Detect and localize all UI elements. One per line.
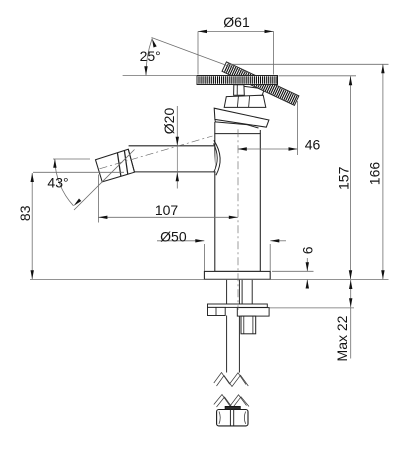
dimension diameter 61 — [198, 14, 274, 75]
svg-text:166: 166 — [367, 162, 383, 186]
dimension Max 22 — [270, 280, 355, 361]
spout tip (aerator) — [96, 149, 135, 182]
spout tip axis center line — [100, 136, 213, 169]
handwheel tilted knurled bar (25 deg) — [222, 62, 299, 105]
spout tube — [129, 146, 216, 172]
svg-text:Ø61: Ø61 — [223, 14, 250, 30]
handwheel rim horizontal knurled bar — [197, 76, 278, 85]
hex nut — [217, 410, 248, 426]
svg-text:83: 83 — [17, 205, 33, 221]
faucet body cylinder — [215, 122, 260, 272]
svg-text:107: 107 — [155, 202, 179, 218]
mounting washer plate — [208, 304, 268, 307]
dimension 107 — [98, 175, 237, 223]
dimension angle 25 — [123, 38, 247, 76]
dimension 6 — [272, 246, 316, 288]
dimension angle 43 — [47, 150, 134, 211]
svg-text:6: 6 — [300, 246, 316, 254]
dimension 166 — [30, 64, 389, 279]
dimension 157 — [279, 76, 357, 279]
svg-text:25°: 25° — [140, 48, 161, 64]
svg-text:157: 157 — [336, 166, 352, 190]
svg-text:Max 22: Max 22 — [334, 315, 350, 361]
rod end collar — [225, 406, 240, 409]
pipe break (lower, above nut) — [214, 395, 249, 409]
valve stem — [234, 85, 245, 95]
svg-text:Ø50: Ø50 — [160, 228, 187, 244]
shank pipes below flange — [227, 279, 253, 304]
dimension diameter 20 — [161, 106, 179, 189]
hose fitting hex — [241, 316, 256, 334]
base flange — [204, 271, 270, 279]
cap lower step — [215, 119, 259, 128]
svg-text:46: 46 — [305, 137, 321, 153]
body center line — [237, 129, 239, 310]
left lock washer block — [208, 307, 226, 315]
valve cap (tilted band) — [214, 108, 269, 127]
dimension diameter 50 — [157, 228, 286, 271]
threaded rod — [227, 316, 240, 373]
dimension 83 — [17, 172, 124, 279]
pipe break (upper) — [214, 373, 249, 387]
right lock washer block — [237, 308, 269, 317]
dimension 46 — [238, 101, 321, 155]
svg-text:43°: 43° — [47, 175, 68, 191]
tilted spoke hub — [243, 86, 264, 99]
svg-text:Ø20: Ø20 — [161, 108, 177, 135]
valve bonnet — [224, 95, 266, 107]
spout-body junction arcs — [214, 140, 221, 175]
